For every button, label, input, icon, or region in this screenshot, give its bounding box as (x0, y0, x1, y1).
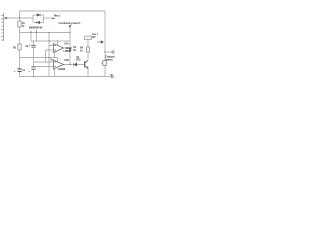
wire Q2 base stub (97, 41, 101, 43)
wire U1A V- pin (54, 52, 56, 57)
resistor R6 (86, 47, 89, 52)
node W1 start arrow (4, 17, 7, 19)
wire R1 to rail A (19, 27, 21, 33)
wire rail A (20, 32, 71, 34)
resistor R1 (18, 21, 21, 27)
battery BT1 (1, 13, 3, 41)
svg-text:+: + (14, 69, 16, 73)
node combined ground arrow (69, 25, 72, 28)
capacitor C1 (17, 69, 21, 72)
wire diode loop right (43, 15, 45, 23)
node junction rail A x49 (48, 32, 49, 33)
wire rail B (31, 40, 70, 42)
node junction rail A x36.5 (36, 32, 37, 33)
wire C1 bottom (19, 72, 21, 77)
label Lim (85, 36, 92, 40)
wire top rail (20, 10, 106, 12)
wire C2 branch vertical (33, 41, 35, 45)
wire R6 to Q1 collector (87, 52, 89, 61)
fuse F1 on right rail (103, 61, 107, 66)
capacitor C2 (31, 45, 35, 47)
wire mid bus x45.5 (45, 50, 47, 62)
wire opamp1 output (64, 47, 71, 49)
wire U1B V- pin (54, 69, 56, 77)
svg-text:battery: battery (105, 58, 113, 61)
node junction bottom rail x33.5 (33, 76, 34, 77)
diode D1 (top of loop) (37, 14, 40, 17)
svg-text:D3: D3 (73, 47, 77, 49)
wire stub x31 (30, 30, 32, 41)
node junction railB x49 (48, 40, 49, 41)
terminal output plus (112, 51, 114, 53)
node junction opamp2 out (69, 64, 70, 65)
svg-text:Lim 1: Lim 1 (92, 33, 99, 36)
wire left vertical from top rail (19, 11, 21, 21)
label minus (110, 74, 113, 76)
wire diode loop top (33, 14, 44, 16)
wire U1A V+ pin (57, 41, 59, 45)
svg-text:Combined ground 1: Combined ground 1 (59, 22, 82, 25)
diode D3 (68, 48, 71, 51)
wire stub x36.5 (36, 30, 38, 41)
wire opamp2 output (64, 64, 85, 66)
svg-text:U1A: U1A (64, 43, 69, 46)
resistor R2 (18, 44, 21, 50)
wire net box to R6 (87, 40, 89, 48)
transistor Q1 (85, 61, 88, 69)
op-amp U1A (54, 44, 64, 53)
diode D2 (bottom of loop) (37, 21, 40, 24)
capacitor C3 (31, 67, 35, 69)
wire Q2 base tick (99, 41, 100, 43)
wire C3 bottom (33, 69, 35, 76)
op-amp U1B (54, 60, 64, 69)
svg-text:R2: R2 (13, 46, 17, 49)
svg-text:LM393: LM393 (58, 68, 66, 71)
svg-text:BC5: BC5 (76, 59, 81, 61)
node Max1 arrow (52, 17, 55, 19)
svg-text:U1B: U1B (64, 59, 69, 62)
svg-text:1N: 1N (73, 50, 76, 52)
svg-text:Max 1: Max 1 (54, 14, 61, 17)
wire bottom rail (20, 76, 106, 78)
node junction y58 bus (48, 57, 49, 58)
diode D4 (74, 63, 77, 66)
wire Q1 emitter to bottom rail (87, 69, 89, 77)
wire comparator bus (48, 33, 50, 77)
wire opamp1 input stubs (46, 46, 54, 51)
svg-text:C1: C1 (22, 70, 26, 72)
wire C2 bottom to rail (33, 48, 35, 67)
wire output stub (105, 51, 112, 53)
node junction rail A x31 (30, 32, 31, 33)
node Q1 emitter arrow (86, 66, 88, 69)
svg-text:+: + (29, 43, 31, 47)
wire W1 to arrow (44, 17, 53, 19)
terminal output minus (111, 76, 113, 78)
wire opamp2 input stubs (34, 62, 54, 67)
node junction rail A Vcg (69, 32, 70, 33)
svg-text:4k7: 4k7 (92, 36, 96, 39)
wire right rail (104, 11, 106, 77)
svg-text:1k: 1k (50, 59, 53, 61)
wire R2 down to corner (20, 50, 58, 58)
svg-text:1k: 1k (80, 50, 83, 53)
transistor Q2 (101, 40, 104, 44)
svg-text:MBR0540: MBR0540 (29, 26, 43, 30)
wire combined ground vertical (69, 28, 71, 48)
wire C1 top (19, 58, 21, 69)
node junction W1 x19.5 (19, 17, 20, 18)
node junction railB V+ stub (57, 40, 58, 41)
wire diode loop left (32, 15, 34, 23)
svg-text:+: + (28, 69, 30, 73)
wire rail A to R2 (19, 33, 21, 45)
wire W1 from battery (4, 17, 34, 19)
wire minus terminal stub (105, 76, 111, 78)
node junction opamp1 out (69, 47, 70, 48)
wire diode D3 to opamp2 output (69, 51, 71, 65)
node junction output (104, 51, 105, 52)
svg-text:1k: 1k (22, 26, 25, 28)
wire diode loop bottom (33, 22, 44, 24)
wire U1B V+ pin (57, 58, 59, 62)
